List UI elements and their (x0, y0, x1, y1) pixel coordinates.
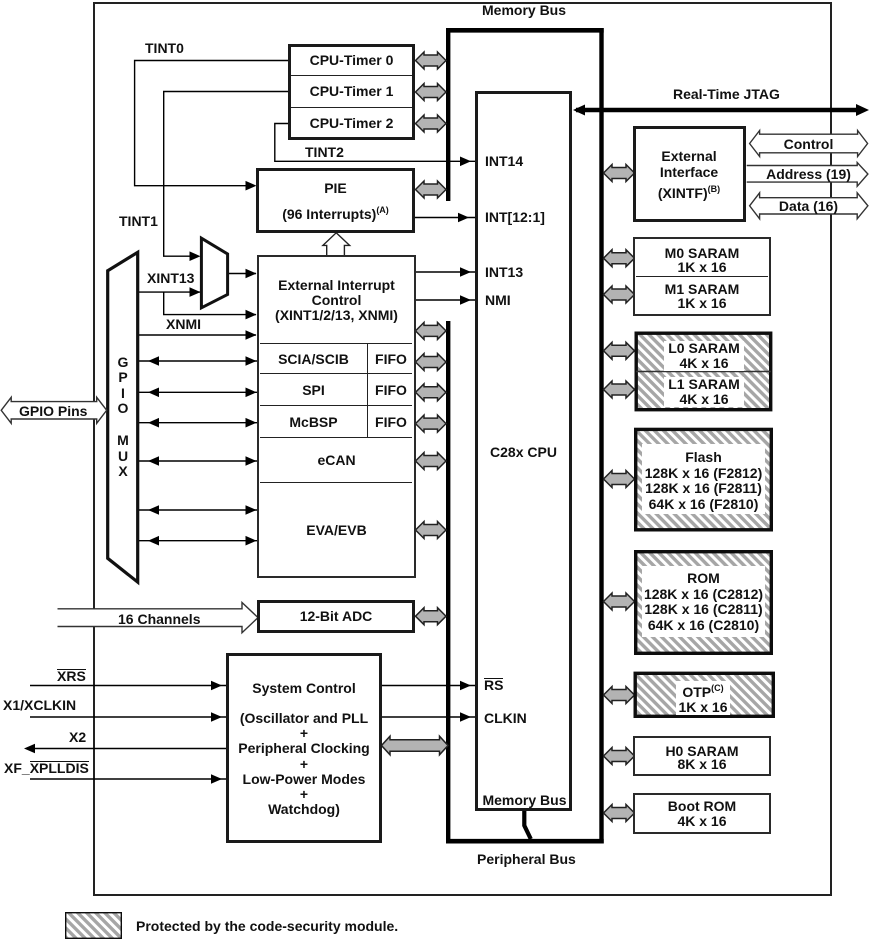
arrowhead XINT13 into input mux (190, 287, 201, 297)
wire TINT0 (135, 61, 289, 186)
wire INT[12:1] from PIE to CPU (414, 217, 475, 219)
arrowhead TINT0 into PIE (246, 181, 257, 191)
arrow XINTF Control (bidirectional white) (750, 131, 868, 157)
gray arrow EVA/EVB to peripheral bus (416, 522, 447, 539)
arrow XINTF Data (16) (bidirectional white) (750, 193, 868, 219)
wire CLKIN from System Control to CPU (381, 716, 475, 718)
wire RS from System Control to CPU (381, 685, 475, 687)
wire TINT1 (164, 92, 289, 257)
block 12-Bit ADC (257, 600, 415, 634)
arrow XINTF Address (19) (white, out) (747, 163, 868, 187)
wire XINT13 branch to External Interrupt Control (164, 292, 256, 315)
label Peripheral Bus (477, 852, 576, 867)
block L0/L1 SARAM (hatched, code-security) (636, 333, 771, 410)
block input mux (TINT1/XINT13) (201, 238, 227, 308)
wire input mux output to External Interrupt Control (228, 273, 256, 275)
arrowhead mux output (246, 269, 257, 279)
block peripheral stack (External Interrupt Control / SCI / SPI / McBSP / eCAN / EVA/EVB) (257, 255, 416, 579)
gray arrow SCIA/SCIB FIFO to peripheral bus (416, 354, 447, 371)
block ROM (hatched, code-security) (636, 552, 772, 654)
block System Control (226, 653, 382, 843)
gray arrow memory bus to Flash (604, 471, 635, 488)
wire XINT13 to input mux (139, 291, 200, 293)
block OTP (hatched, code-security) (635, 673, 773, 716)
wire XNMI (139, 334, 256, 336)
label Flash text patch (642, 444, 765, 514)
gray arrow memory bus to H0 SARAM (604, 748, 635, 765)
gray arrow memory bus to ROM (604, 593, 635, 610)
label ROM text patch (642, 566, 765, 637)
label GPIO letters (108, 355, 138, 417)
label OTP text patch (676, 681, 730, 715)
label TINT2 (305, 145, 344, 160)
label Control (749, 137, 868, 152)
gray arrow PIE to memory bus (416, 181, 447, 198)
arrowhead INT14 into CPU (460, 157, 471, 167)
wire XRS input (30, 685, 226, 687)
arrowhead TINT1 into input mux (190, 251, 201, 261)
legend swatch (hatched) (66, 913, 122, 939)
block PIE (256, 168, 415, 233)
gray arrow McBSP FIFO to peripheral bus (416, 415, 447, 432)
arrowhead JTAG left (into CPU) (573, 105, 585, 116)
block C28x CPU (475, 91, 572, 811)
label 16 Channels (118, 612, 200, 627)
gray arrow memory bus to M1 SARAM (604, 286, 635, 303)
label XNMI (166, 317, 201, 332)
wire EVA/EVB line 1 to GPIO MUX (139, 509, 257, 511)
wire TINT2 / INT14 (275, 124, 475, 162)
wire McBSP to GPIO MUX (139, 422, 257, 424)
wire X2 output (28, 748, 227, 750)
wire INT13 to CPU (415, 271, 476, 273)
wire SPI to GPIO MUX (139, 391, 257, 393)
bus Memory Bus top horizontal (446, 28, 604, 33)
gray arrow 12-Bit ADC to peripheral bus (416, 608, 447, 625)
label XINT13 (147, 271, 194, 286)
block CPU-Timer 0/1/2 (288, 44, 415, 140)
wire eCAN to GPIO MUX (139, 460, 257, 462)
arrowhead NMI (460, 295, 471, 305)
arrow GPIO Pins (bidirectional white) (1, 397, 107, 423)
label Memory Bus (top) (482, 3, 566, 18)
arrowhead INT[12:1] (458, 213, 469, 223)
wire X1/XCLKIN input (30, 716, 226, 718)
label GPIO Pins (19, 404, 87, 419)
gray arrow External Interrupt Control to peripheral bus (416, 322, 447, 339)
label L0/L1 SARAM text patches (664, 341, 744, 371)
gray arrow CPU-Timer 1 to memory bus (416, 84, 447, 101)
label XF_XPLLDIS (4, 761, 89, 776)
label TINT0 (145, 41, 184, 56)
gray arrow eCAN to peripheral bus (416, 453, 447, 470)
label TINT1 (119, 214, 158, 229)
arrow hollow up (External Interrupt Control to PIE) (323, 233, 350, 256)
bus Peripheral Bus left vertical (446, 321, 450, 843)
bus Peripheral Bus bottom horizontal (446, 839, 604, 844)
bus CPU to Peripheral Bus connector (524, 810, 531, 839)
block Flash (hatched, code-security) (636, 429, 772, 529)
gray arrow memory bus to External Interface (604, 165, 635, 182)
block External Interface (XINTF) (633, 126, 746, 222)
block M0/M1 SARAM (633, 237, 771, 315)
arrow 16 Channels (white, into ADC) (58, 603, 259, 633)
label legend text (136, 919, 398, 934)
arrowhead INT13 (460, 267, 471, 277)
label Address (19) (749, 167, 868, 182)
gray arrow memory bus to M0 SARAM (604, 250, 635, 267)
arrowhead XINT13 branch (246, 310, 257, 320)
bus Memory Bus right vertical (599, 28, 603, 843)
block H0 SARAM (633, 736, 771, 776)
arrowhead XNMI (246, 330, 257, 340)
gray arrow System Control to peripheral bus (large) (382, 736, 449, 755)
arrowhead JTAG right (to pin) (856, 104, 869, 116)
label Real-Time JTAG (673, 87, 780, 102)
gray arrow memory bus to L0 SARAM (604, 342, 635, 359)
label Data (16) (749, 199, 868, 214)
gray arrow CPU-Timer 0 to memory bus (416, 52, 447, 69)
label MUX letters (108, 433, 138, 480)
gray arrow memory bus to OTP (604, 687, 635, 704)
block GPIO MUX trapezoid (108, 252, 138, 582)
label XRS (57, 669, 86, 684)
gray arrow memory bus to L1 SARAM (604, 381, 635, 398)
label X1/XCLKIN (3, 698, 76, 713)
label X2 (69, 730, 86, 745)
wire Real-Time JTAG thick line (576, 108, 858, 113)
block Boot ROM (633, 793, 771, 834)
wire XF_XPLLDIS input (30, 778, 226, 780)
wire NMI to CPU (415, 299, 476, 301)
gray arrow memory bus to Boot ROM (604, 805, 635, 822)
gray arrow SPI FIFO to peripheral bus (416, 384, 447, 401)
bus Memory Bus left vertical (upper) (446, 28, 450, 201)
wire EVA/EVB line 2 to GPIO MUX (139, 540, 257, 542)
gray arrow CPU-Timer 2 to memory bus (416, 115, 447, 132)
wire SCIA/SCIB to GPIO MUX (139, 360, 257, 362)
